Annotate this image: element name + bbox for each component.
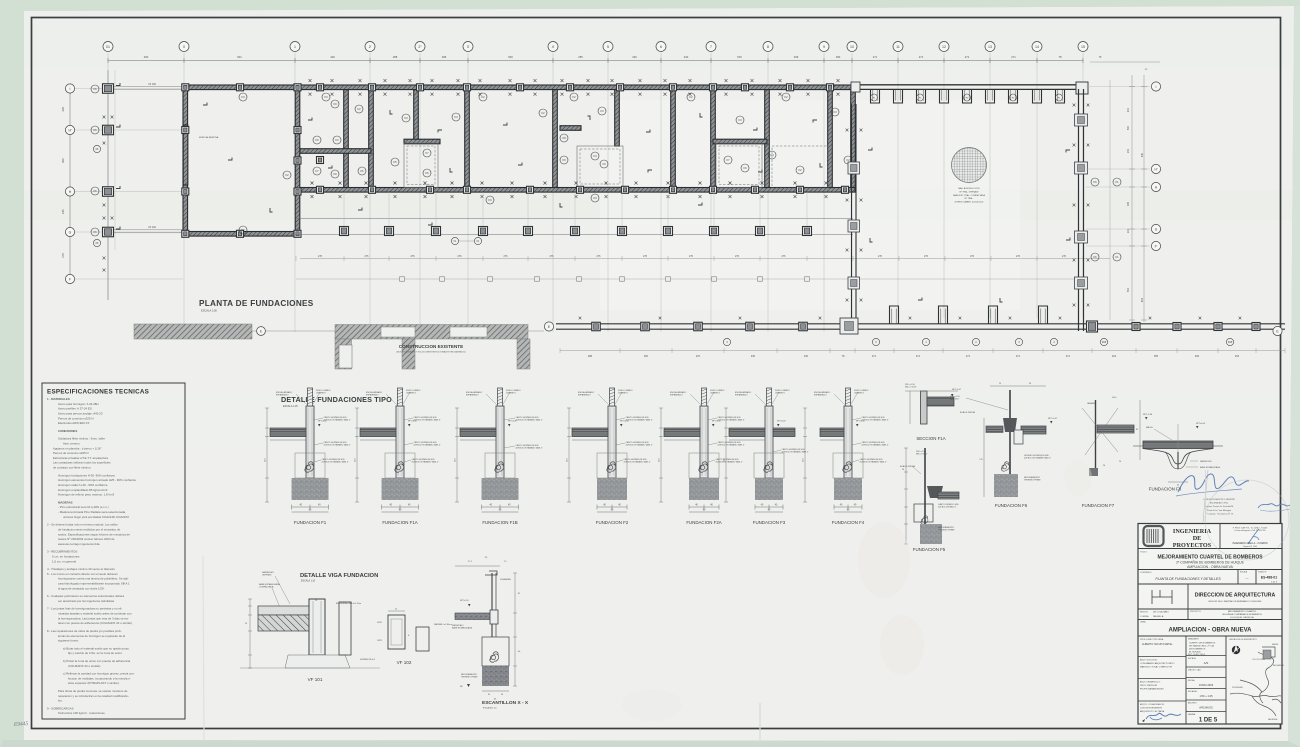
svg-text:COMPACTADA: COMPACTADA: [259, 586, 274, 589]
left column signature (blue ink): [1146, 713, 1181, 719]
svg-text:276: 276: [597, 255, 602, 258]
VF102 rectangles: [388, 615, 405, 649]
svg-text:276: 276: [643, 255, 648, 258]
interior wall at x=767: [765, 90, 770, 188]
footing row E x=1256: [1252, 323, 1260, 331]
svg-text:208 BOLON TAMAÑO MAX 4": 208 BOLON TAMAÑO MAX 4": [860, 460, 887, 463]
svg-text:208 BOLON TAMAÑO MAX 4": 208 BOLON TAMAÑO MAX 4": [718, 418, 745, 421]
VF101 left dims: [249, 599, 251, 668]
footing row E x=645: [641, 322, 650, 331]
isolated footing on grid 01 at y=191.5: [103, 187, 114, 197]
svg-text:191: 191: [1127, 148, 1130, 153]
svg-text:la hormigonadura. Las juntas q: la hormigonadura. Las juntas que mas de …: [58, 616, 129, 620]
svg-text:NPT±0.00: NPT±0.00: [508, 421, 517, 423]
svg-text:NPT±0.00: NPT±0.00: [408, 421, 417, 423]
svg-text:270: 270: [1062, 255, 1067, 258]
svg-text:CONTENIDO:: CONTENIDO:: [1140, 572, 1152, 574]
svg-text:reparacion y se introduciran e: reparacion y se introduciran en la cavid…: [58, 694, 129, 698]
svg-text:ARCHIVO:: ARCHIVO:: [1188, 702, 1198, 705]
svg-text:VIGA AREA: VIGA AREA: [500, 578, 511, 581]
colonnade dim label circles: [451, 237, 458, 244]
svg-text:208 BOLON TAMAÑO MAX 4": 208 BOLON TAMAÑO MAX 4": [322, 460, 349, 463]
grid bubble 13: [985, 42, 995, 52]
svg-text:ARQT. DESARROLLO:: ARQT. DESARROLLO:: [1140, 681, 1161, 684]
svg-text:276: 276: [782, 255, 787, 258]
svg-text:FECHA:: FECHA:: [1188, 679, 1195, 682]
svg-text:al agua de amasado con dosis 1: al agua de amasado con dosis 1/29.: [58, 586, 105, 590]
svg-text:AMPLIACION - OBRA NUEVA: AMPLIACION - OBRA NUEVA: [1169, 628, 1253, 634]
interior wall at x=416 upper: [414, 90, 419, 143]
colonnade footing x=575: [571, 227, 580, 236]
svg-text:DIBUJO / CAD:: DIBUJO / CAD:: [1188, 669, 1202, 672]
svg-text:ES-488-01: ES-488-01: [1261, 576, 1277, 580]
isolated footing on grid 01 at y=130: [103, 125, 114, 135]
svg-text:CEMENTO: CEMENTO: [710, 392, 720, 394]
svg-text:270: 270: [970, 255, 975, 258]
svg-text:MANDANTE:: MANDANTE:: [1188, 638, 1200, 641]
tie beam I row: [114, 86, 183, 88]
svg-text:276: 276: [504, 255, 509, 258]
svg-text:Techumbre 1: Techumbre 100 kg/m2 - reducciones: [58, 711, 105, 715]
svg-text:( Fono antofagasta ) Telf. 55: ( Fono antofagasta ) Telf. 55 555 555: [1235, 529, 1266, 532]
svg-text:de fundacion seran recibidos p: de fundacion seran recibidos por el meca…: [58, 527, 121, 531]
svg-text:208 BOLON MAX 4": 208 BOLON MAX 4": [938, 505, 956, 508]
colonnade tie beam row G: [296, 218, 853, 220]
svg-text:cara hidrofugado impermeabiliz: cara hidrofugado impermeabilizante incor…: [58, 582, 130, 586]
svg-text:NPT±0.00: NPT±0.00: [856, 421, 865, 423]
svg-text:ARQTO. COLABORADOR:: ARQTO. COLABORADOR:: [1140, 703, 1165, 706]
svg-text:FUNDACION F1: FUNDACION F1: [294, 520, 327, 525]
small x marks near col 01: [103, 116, 106, 119]
svg-text:BOA DE PEDRA: BOA DE PEDRA: [960, 411, 976, 414]
svg-text:CEMENTO: CEMENTO: [775, 392, 785, 394]
fence pier x=944: [940, 89, 949, 103]
svg-text:1 - MATERIALES: 1 - MATERIALES: [47, 397, 70, 401]
svg-text:601: 601: [237, 55, 242, 59]
row bubble H′ right: [1151, 164, 1160, 173]
footing row E x=698: [694, 322, 703, 331]
svg-text:ESCALA:: ESCALA:: [1188, 657, 1196, 660]
svg-text:PLANO Nº: PLANO Nº: [1258, 571, 1267, 574]
foundation detail F8: [1133, 423, 1223, 492]
svg-text:940: 940: [1141, 152, 1144, 157]
fence pier x=921: [917, 89, 926, 103]
foundation detail F3: [724, 388, 809, 525]
svg-text:ESPARRAGO: ESPARRAGO: [366, 393, 379, 396]
svg-text:E9445: E9445: [13, 720, 29, 728]
svg-text:Acero para pernos anclaje: A4: Acero para pernos anclaje: A42-23: [58, 411, 103, 415]
svg-text:9: 9: [823, 45, 825, 49]
boundary wall footing y=237: [1075, 231, 1088, 243]
svg-text:ORPINES: ORPINES: [262, 575, 272, 577]
svg-text:TERRENO FIRME: TERRENO FIRME: [938, 529, 955, 531]
svg-text:I: I: [1156, 85, 1157, 89]
interior wall at x=346: [344, 90, 349, 188]
footing row E x=803: [799, 322, 808, 331]
room footing label circles: [322, 93, 330, 101]
svg-text:minadas lavadas y material su: minadas lavadas y material suelto antes …: [58, 612, 132, 616]
svg-text:0: 0: [183, 45, 185, 49]
svg-text:BASE ESTABILIZADA: BASE ESTABILIZADA: [259, 583, 280, 586]
fence corner piece: [1076, 82, 1088, 94]
grid bubble 11: [893, 42, 903, 52]
svg-text:Las costaduras selloran todos: Las costaduras selloran todos los superf…: [53, 461, 111, 465]
svg-text:208 BOLON TAMAÑO MAX 4": 208 BOLON TAMAÑO MAX 4": [716, 460, 743, 463]
svg-text:G: G: [69, 230, 72, 234]
grid bubble 3′: [463, 42, 473, 52]
svg-text:1:50 + 1:25: 1:50 + 1:25: [1199, 694, 1213, 698]
foundation detail F4: [803, 388, 889, 525]
svg-text:LAMINA:: LAMINA:: [1188, 713, 1196, 716]
svg-text:2′: 2′: [369, 45, 372, 49]
foundation detail F2A: [659, 388, 745, 525]
partition shelf wall: [560, 126, 581, 131]
left dimension chain: [69, 89, 71, 280]
svg-text:6: 6: [660, 45, 662, 49]
svg-text:LUIS MONTEGEMITH: LUIS MONTEGEMITH: [1140, 708, 1162, 710]
svg-text:9 - SOBRECARGAS: 9 - SOBRECARGAS: [47, 706, 74, 710]
svg-text:DE SANTA CRUZ, 2ª CIA: DE SANTA CRUZ, 2ª CIA: [1189, 645, 1214, 648]
x marks along south wall: [311, 182, 314, 185]
svg-text:Nº TRAL. DRENAJE: Nº TRAL. DRENAJE: [960, 190, 980, 193]
svg-text:208 BOLON TAMAÑO MAX 4": 208 BOLON TAMAÑO MAX 4": [718, 443, 745, 446]
svg-text:FUNDACION F4: FUNDACION F4: [832, 520, 865, 525]
svg-text:500: 500: [1127, 125, 1130, 130]
pier with legs up x=1043: [1039, 306, 1048, 324]
VF101 base: [285, 655, 350, 668]
svg-text:de contacto con filete minimo.: de contacto con filete minimo.: [53, 466, 91, 470]
svg-text:1ª Comision - Resolucion Nº 10: 1ª Comision - Resolucion Nº 10: [1205, 513, 1234, 515]
svg-text:271: 271: [966, 355, 971, 358]
svg-text:DE: DE: [1193, 535, 1202, 542]
svg-text:FELIPE BAHAMONDES: FELIPE BAHAMONDES: [1140, 688, 1164, 691]
row F long line: [296, 278, 1085, 280]
svg-text:SANTA: SANTA: [1272, 643, 1279, 646]
svg-text:ESPECIFICACIONES TECNICAS: ESPECIFICACIONES TECNICAS: [47, 389, 149, 396]
svg-text:Hormigon emplantillado 85 kg/c: Hormigon emplantillado 85 kg/cem/m3: [58, 488, 108, 492]
svg-text:NPT±0.00: NPT±0.00: [777, 421, 786, 423]
svg-text:fijo y cambio de 3 lbs. en la: fijo y cambio de 3 lbs. en la zona de un…: [68, 651, 123, 655]
svg-text:1,5 cm. en general: 1,5 cm. en general: [52, 559, 76, 563]
svg-text:500: 500: [508, 55, 513, 59]
svg-text:208 BOLON TAMAÑO MAX 4": 208 BOLON TAMAÑO MAX 4": [324, 443, 351, 446]
svg-text:VF 101: VF 101: [308, 677, 323, 682]
svg-text:ESCALA 1:50: ESCALA 1:50: [201, 309, 217, 313]
dashed pit room A: [404, 143, 438, 188]
pier with legs up x=943: [939, 306, 948, 324]
interior wall at x=555: [553, 90, 558, 188]
svg-text:Hormigon elementos hormigon ar: Hormigon elementos hormigon armado H25 -…: [58, 478, 136, 482]
svg-text:286: 286: [442, 55, 447, 59]
middle column cells: [1186, 655, 1226, 657]
svg-text:245: 245: [61, 209, 65, 214]
svg-text:CEMENTO: CEMENTO: [854, 392, 864, 394]
interior wall at x=467: [465, 90, 470, 188]
svg-text:E: E: [260, 329, 262, 333]
bottom section columns: [1185, 636, 1187, 724]
left row grid lines: [75, 89, 183, 280]
svg-text:hormigonarse contra una lamina: hormigonarse contra una lamina de poliet…: [58, 577, 129, 581]
colonnade dimension line: [300, 258, 1110, 260]
svg-text:208 BOLON TAMAÑO MAX 4": 208 BOLON TAMAÑO MAX 4": [862, 443, 889, 446]
svg-text:PICHILEMU: PICHILEMU: [1232, 687, 1243, 689]
svg-text:208 BOLON TAMAÑO MAX 4": 208 BOLON TAMAÑO MAX 4": [324, 418, 351, 421]
svg-text:288: 288: [588, 355, 593, 358]
svg-text:ALBERTO HACUITA METEL: ALBERTO HACUITA METEL: [1142, 643, 1173, 646]
grid bubble 01: [103, 42, 113, 52]
x marks near row E: [579, 317, 582, 320]
svg-text:SECCION F1A: SECCION F1A: [916, 436, 945, 441]
north compass: [1232, 644, 1241, 654]
foundation detail F1A: [355, 388, 441, 525]
svg-text:208 BOLON TAMAÑO MAX 4": 208 BOLON TAMAÑO MAX 4": [414, 418, 441, 421]
svg-text:REGION DEL LIBERTADOR BERNARDO: REGION DEL LIBERTADOR BERNARDO O'HIGGINS: [1209, 600, 1262, 603]
row bubble I right: [1151, 82, 1160, 91]
scanner smudge blobs: [858, 522, 910, 598]
title block row dividers: [1138, 548, 1282, 550]
svg-text:245: 245: [1127, 201, 1130, 206]
logo cell divider: [1219, 524, 1221, 549]
colonnade footing x=389: [385, 227, 394, 236]
svg-text:3 - RECUBRIMIENTOS: 3 - RECUBRIMIENTOS: [47, 550, 77, 554]
svg-text:(COLMAFIX 32 o similar).: (COLMAFIX 32 o similar).: [68, 664, 101, 668]
svg-text:AMPLIACION - OBRA NUEVA: AMPLIACION - OBRA NUEVA: [1187, 565, 1233, 569]
svg-text:ARCHIVOS: ARCHIVOS: [1199, 706, 1213, 710]
svg-text:ZARPAS L=1.80cm: ZARPAS L=1.80cm: [434, 623, 452, 626]
row bubble G left: [65, 227, 74, 236]
svg-text:ESPARRAGO: ESPARRAGO: [276, 393, 289, 396]
svg-text:271: 271: [1016, 355, 1021, 358]
interior wall at x=853: [851, 90, 856, 188]
grid bubble 1: [290, 42, 300, 52]
junction assembly row E: [840, 318, 858, 334]
architecture symbol: [1152, 590, 1172, 604]
left wing south wall: [183, 232, 300, 237]
svg-text:PROYECTO:: PROYECTO:: [1190, 611, 1202, 613]
svg-text:los.: los.: [58, 699, 63, 703]
svg-text:HACIENDA: HACIENDA: [1268, 718, 1278, 721]
svg-text:1 de 5: 1 de 5: [1271, 582, 1278, 584]
interior wall at x=713: [711, 90, 716, 188]
svg-text:JAMBAS: JAMBAS: [1087, 402, 1096, 405]
main band south wall: [300, 188, 855, 193]
svg-text:10: 10: [850, 45, 854, 49]
interior wall at x=371: [369, 90, 374, 188]
svg-text:feccion de moldajes, incorpora: feccion de moldajes, incorporando a la m…: [68, 676, 131, 680]
svg-text:REGION:: REGION:: [1140, 612, 1148, 614]
VF101 column profile right: [339, 602, 351, 655]
foundation detail F7: [1082, 397, 1153, 508]
svg-text:INGENIERO ABELLA - COARDS: INGENIERO ABELLA - COARDS: [1232, 542, 1268, 545]
svg-text:ESPARRAGO: ESPARRAGO: [735, 393, 748, 396]
grid bubble 0: [179, 42, 189, 52]
boundary wall footing y=283: [1075, 277, 1088, 289]
svg-text:271: 271: [919, 55, 924, 59]
partition wall pitA top: [404, 139, 440, 144]
svg-text:PALMILLA: PALMILLA: [1153, 615, 1164, 618]
grid bubble 9: [819, 42, 829, 52]
map roads: [1230, 647, 1281, 716]
row bubble E on strip: [257, 327, 266, 336]
svg-text:COMUNA:: COMUNA:: [1140, 615, 1149, 618]
svg-text:BOA DE PEDRA: BOA DE PEDRA: [900, 465, 916, 468]
footing row E x=750: [746, 322, 755, 331]
foundation detail F6: [950, 383, 1058, 508]
svg-text:515: 515: [737, 55, 742, 59]
interior wall at x=673: [671, 90, 676, 188]
svg-text:ESCALA 1:25: ESCALA 1:25: [283, 405, 298, 408]
svg-text:208 BOLON TAMAÑO MAX 4": 208 BOLON TAMAÑO MAX 4": [1024, 456, 1051, 459]
svg-text:208 BOLON TAMAÑO MAX 4": 208 BOLON TAMAÑO MAX 4": [516, 418, 543, 421]
dashed pit room C: [772, 146, 828, 188]
svg-text:NPT+0.07: NPT+0.07: [952, 389, 962, 391]
middle court wall vertical x=853: [851, 104, 853, 318]
svg-text:240: 240: [684, 55, 689, 59]
row bubble G right: [1151, 224, 1160, 233]
svg-text:Fiscal de la Carta Managua: Fiscal de la Carta Managua: [1207, 509, 1231, 512]
svg-text:CONCABADO ARQUITECTONICO: CONCABADO ARQUITECTONICO: [1140, 662, 1175, 665]
svg-text:271: 271: [872, 355, 877, 358]
svg-text:- Pino estructural seco M-q 40: - Pino estructural seco M-q 40% (s.c.c.): [58, 505, 109, 509]
VF101 beam: [309, 599, 325, 655]
svg-text:4 - Traslapos y anclajes mini: 4 - Traslapos y anclajes minimo 40 veces…: [47, 567, 115, 571]
escantillon X-X detail: [452, 557, 529, 710]
partition wall room1: [300, 149, 371, 154]
fence pier x=1060: [1056, 89, 1065, 103]
svg-text:208 BOLON TAMAÑO MAX 4": 208 BOLON TAMAÑO MAX 4": [626, 418, 653, 421]
fence pier x=875: [871, 89, 880, 103]
svg-text:BASE ESTABILIZADA: BASE ESTABILIZADA: [452, 627, 473, 630]
svg-text:JUNIO 2003: JUNIO 2003: [1199, 683, 1214, 687]
drainage gravel circle: [952, 148, 987, 183]
svg-text:FUNDACION F2A: FUNDACION F2A: [686, 520, 721, 525]
svg-text:ESPARRAGO: ESPARRAGO: [466, 393, 479, 396]
svg-text:276: 276: [458, 255, 463, 258]
svg-text:300: 300: [644, 355, 649, 358]
verandah connector lines: [344, 192, 807, 226]
wall footings along south wall: [317, 186, 324, 193]
svg-text:PLANTA DE FUNDACIONES: PLANTA DE FUNDACIONES: [199, 299, 314, 308]
small label circles below row E: [723, 338, 730, 345]
row bubble H left: [65, 187, 74, 196]
svg-text:F′: F′: [1155, 244, 1158, 248]
svg-text:ARQT. SOLICITUD:: ARQT. SOLICITUD:: [1140, 659, 1158, 662]
svg-text:BELLAVISTA: BELLAVISTA: [1273, 664, 1284, 667]
svg-text:245: 245: [61, 107, 65, 112]
foundation detail F2: [567, 388, 653, 525]
svg-text:12: 12: [942, 45, 946, 49]
svg-text:276: 276: [318, 255, 323, 258]
svg-text:219: 219: [1112, 355, 1117, 358]
svg-text:DETALLE VIGA FUNDACION: DETALLE VIGA FUNDACION: [300, 573, 378, 579]
svg-text:339: 339: [794, 55, 799, 59]
svg-text:SELLO 3/16": SELLO 3/16": [905, 387, 917, 389]
grid bubble 8: [763, 42, 773, 52]
svg-text:ESPARRAGO: ESPARRAGO: [578, 393, 591, 396]
svg-text:TERRENO FIRME: TERRENO FIRME: [1024, 479, 1041, 481]
svg-text:c) Rellenar la cavidad con hor: c) Rellenar la cavidad con hormigon grue…: [63, 672, 135, 676]
svg-text:Soldadura filete minimo : 3mm,: Soldadura filete minimo : 3mm, taller: [58, 437, 105, 441]
svg-text:271: 271: [1066, 355, 1071, 358]
svg-text:Aser, terreno: Aser, terreno: [63, 441, 80, 445]
svg-text:270: 270: [924, 255, 929, 258]
svg-text:DE BOMBEROS: DE BOMBEROS: [1189, 649, 1206, 651]
wall footings left wing: [182, 127, 189, 134]
large footing row E x=1092: [1087, 321, 1098, 332]
colonnade footing x=668: [664, 227, 673, 236]
scanner background right band: [1288, 6, 1300, 747]
svg-text:276: 276: [689, 255, 694, 258]
svg-text:01: 01: [106, 45, 110, 49]
svg-text:240: 240: [751, 355, 756, 358]
svg-text:Electrodos AWS E60 XX: Electrodos AWS E60 XX: [58, 421, 89, 425]
svg-text:Estructuras privadas s/T.E.T.T: Estructuras privadas s/T.E.T.T. arquitec…: [53, 456, 108, 460]
top dimension line: [108, 60, 1083, 62]
line to E bubble: [252, 330, 544, 332]
svg-text:320: 320: [632, 55, 637, 59]
svg-text:271: 271: [965, 55, 970, 59]
svg-text:14: 14: [1035, 45, 1039, 49]
svg-text:276: 276: [735, 255, 740, 258]
svg-text:HORMIGON H-5: HORMIGON H-5: [360, 659, 376, 661]
svg-text:BLW 3/16": BLW 3/16": [950, 399, 960, 401]
foundation detail F1B: [455, 388, 543, 525]
svg-text:271: 271: [873, 55, 878, 59]
svg-text:276: 276: [365, 255, 370, 258]
interior wall at x=830: [828, 90, 833, 188]
svg-text:603: 603: [1141, 297, 1144, 302]
svg-text:288: 288: [393, 55, 398, 59]
footing row E x=1136: [1132, 323, 1140, 331]
corner L marks scattered: [308, 118, 312, 121]
registry blue ink stroke: [1248, 529, 1259, 544]
fence pier x=1037: [1033, 89, 1042, 103]
svg-text:b) Pintar la zona de union con: b) Pintar la zona de union con puente de…: [63, 659, 131, 663]
direccion row: [1187, 584, 1189, 609]
row bubble E left: [544, 322, 553, 331]
svg-text:Hormigon de relleno peso maxim: Hormigon de relleno peso maximo: 1.8 t/m…: [58, 493, 114, 497]
boundary wall footing y=120: [1075, 114, 1088, 126]
colonnade footing x=622: [618, 227, 627, 236]
company logo: [1144, 526, 1164, 546]
svg-text:271: 271: [1011, 55, 1016, 59]
grid bubble 6: [656, 42, 666, 52]
grid bubble 4′: [548, 42, 558, 52]
svg-text:DE COQUIMBO: DE COQUIMBO: [1153, 612, 1169, 614]
svg-text:asesores terrago ingenieros lt: asesores terrago ingenieros ltda.: [58, 542, 100, 546]
svg-text:F: F: [69, 277, 71, 281]
svg-text:I: I: [70, 87, 71, 91]
svg-text:255: 255: [578, 55, 583, 59]
bottom foundation beam row E: [556, 323, 1285, 325]
fence pier label circles: [871, 94, 878, 101]
svg-text:276: 276: [411, 255, 416, 258]
svg-text:RUT: 76-817-760-9: RUT: 76-817-760-9: [1188, 654, 1206, 656]
svg-text:MURO ALBERTINA: MURO ALBERTINA: [199, 136, 219, 139]
blue signature over F8: [1178, 474, 1249, 492]
svg-text:Acero perfiles: A 37-24 ES: Acero perfiles: A 37-24 ES: [58, 407, 92, 411]
svg-text:INGENIERO CIVIL: INGENIERO CIVIL: [1210, 503, 1229, 505]
footing label circles col 01: [91, 85, 99, 93]
footing row E x=1218: [1214, 323, 1222, 331]
svg-text:PLANTA DE FUNDACIONES Y DE: PLANTA DE FUNDACIONES Y DETALLES: [1155, 577, 1221, 581]
svg-text:FUNDACION F8: FUNDACION F8: [1149, 487, 1182, 492]
grid 01 foundation column line: [107, 70, 109, 300]
svg-text:ESCALA 1:10: ESCALA 1:10: [483, 707, 497, 710]
especificaciones tecnicas box: [42, 383, 185, 719]
svg-text:7: 7: [710, 45, 712, 49]
foundation detail F1: [265, 388, 351, 525]
